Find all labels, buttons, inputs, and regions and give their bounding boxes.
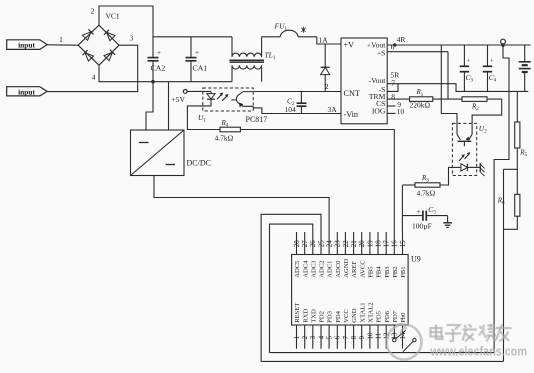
junction dot A	[151, 80, 155, 84]
svg-text:XTAL2: XTAL2	[368, 302, 375, 322]
node 2 label	[91, 7, 95, 16]
svg-text:+: +	[195, 49, 199, 57]
U9 top pin 23 ADC0	[335, 232, 342, 278]
U1 LED	[207, 91, 215, 99]
wire fuse to CNT +V (1A)	[317, 37, 341, 44]
svg-text:26: 26	[310, 240, 317, 247]
IOG stub (10)	[387, 112, 395, 114]
U9 bottom pin 7 VCC	[343, 309, 350, 349]
svg-text:+: +	[157, 49, 161, 57]
U9 top pin 16 PB2	[392, 232, 399, 278]
R4 label	[221, 119, 229, 129]
U2 phototransistor	[457, 134, 472, 146]
svg-text:AGND: AGND	[343, 259, 350, 278]
capacitor C4	[483, 45, 494, 91]
svg-text:11: 11	[375, 332, 382, 339]
svg-text:PB1: PB1	[400, 266, 407, 277]
wire R1 to R2	[433, 98, 462, 100]
svg-text:CA2: CA2	[151, 64, 166, 73]
wire 6 to TRM node	[447, 52, 449, 99]
wire input2 to bridge node 3	[47, 45, 138, 91]
svg-text:7: 7	[343, 335, 350, 339]
DC-DC module CNT box	[341, 38, 387, 124]
wire CNT control (2)	[253, 91, 341, 93]
U9 box	[292, 255, 409, 326]
CNT TRM pin label	[369, 92, 386, 101]
C3 label	[466, 73, 474, 84]
svg-text:+: +	[467, 58, 471, 65]
U9 top pin 20 AVCC	[359, 232, 366, 278]
fuse FU1	[262, 30, 317, 37]
R1 label	[416, 88, 424, 98]
node 4 label	[92, 73, 96, 82]
U9 top pin 25 ADC2	[318, 232, 325, 278]
svg-text:28: 28	[294, 240, 301, 247]
wire R5 bottom jog	[504, 148, 518, 169]
resistor R6	[515, 194, 520, 216]
svg-text:22: 22	[343, 240, 350, 247]
wire R6 bottom jog	[504, 216, 518, 229]
CNT +V pin label	[344, 40, 355, 49]
10 label	[397, 107, 405, 116]
input terminal 1	[7, 40, 48, 50]
wire node2 to top rail	[99, 6, 153, 57]
svg-text:7: 7	[391, 79, 395, 88]
wire rail B to U9 pin25	[261, 214, 321, 361]
TL1 label	[265, 51, 276, 62]
wire 4R branch to U2 collector	[441, 45, 457, 134]
capacitor C2	[297, 92, 307, 114]
svg-text:27: 27	[302, 240, 309, 247]
CNT IOG pin label	[372, 107, 386, 116]
star marker	[301, 27, 305, 33]
battery BT1	[519, 45, 531, 91]
svg-text:ADC3: ADC3	[310, 260, 317, 278]
wire rail to R5	[516, 91, 518, 122]
resistor R1	[410, 97, 433, 102]
wire input1 to bridge node 1	[47, 44, 78, 46]
svg-text:25: 25	[318, 240, 325, 247]
wire U1 emitter	[252, 106, 254, 108]
svg-text:20: 20	[359, 240, 366, 247]
resistor R3	[415, 183, 440, 187]
optocoupler U1 dashed box	[203, 88, 253, 111]
svg-text:PB5: PB5	[368, 266, 375, 278]
optocoupler U2 dashed box	[452, 123, 476, 175]
U1 light arrows	[217, 93, 228, 101]
svg-text:+5V: +5V	[172, 95, 186, 104]
U9 top pin 19 PB5	[367, 232, 374, 278]
wire R2 to U2 emitter	[472, 99, 502, 134]
svg-text:100µF: 100µF	[412, 222, 432, 231]
wire R3 node down to U9 PB1	[401, 185, 403, 232]
svg-text:18: 18	[375, 240, 382, 247]
svg-text:21: 21	[351, 240, 358, 247]
svg-text:6: 6	[335, 335, 342, 339]
svg-text:+V: +V	[344, 40, 355, 49]
svg-text:PB4: PB4	[376, 266, 383, 278]
-S wire (7)	[387, 84, 398, 92]
U9 bottom pin 4 PD2	[318, 311, 325, 349]
svg-text:PC817: PC817	[246, 115, 268, 124]
9 label	[397, 100, 401, 109]
bottom rail A	[270, 352, 495, 354]
svg-text:U9: U9	[411, 255, 421, 264]
watermark	[387, 324, 528, 360]
svg-text:PD5: PD5	[376, 310, 383, 322]
7 label	[391, 79, 395, 88]
3A label	[328, 105, 338, 114]
wire rail to DC/DC right input	[168, 82, 170, 130]
U9 top pin 28 ADC5	[294, 232, 301, 278]
svg-text:DC/DC: DC/DC	[187, 159, 211, 168]
8 label	[391, 92, 395, 101]
U9 top pin 27 ADC4	[302, 232, 309, 278]
svg-text:PD3: PD3	[327, 310, 334, 322]
svg-text:PD7: PD7	[392, 310, 399, 322]
svg-text:1: 1	[59, 35, 63, 44]
svg-text:2: 2	[302, 335, 309, 339]
capacitor C5	[402, 208, 447, 221]
U9 bottom pin 3 TXD	[310, 309, 317, 349]
CNT -Vin pin label	[344, 110, 359, 119]
U9 top pin 24 ADC1	[327, 232, 334, 278]
capacitor C3	[460, 45, 471, 91]
U9 bottom pin 10 XTAL2	[367, 302, 374, 348]
svg-text:PD6: PD6	[384, 310, 391, 322]
R6 label	[497, 197, 505, 207]
C2 label	[287, 96, 295, 107]
U2 label	[479, 124, 487, 135]
U9 bottom pin 13 PD7	[392, 310, 399, 339]
node 1 label	[59, 35, 63, 44]
U9 bottom pin 11 PD5	[375, 310, 382, 348]
svg-text:1: 1	[294, 335, 301, 339]
R3 value	[417, 188, 436, 197]
wire 4R to rail A	[494, 45, 509, 352]
CNT CS pin label	[376, 99, 385, 108]
U9 top pin 15 PB1	[400, 232, 407, 278]
switch S1	[393, 330, 417, 351]
svg-text:ADC4: ADC4	[302, 260, 309, 278]
wire +5V to LED	[187, 90, 211, 92]
wire R3 to U2 LED	[440, 167, 452, 185]
svg-text:-Vin: -Vin	[344, 110, 359, 119]
svg-text:ADC5: ADC5	[294, 260, 301, 278]
2 label	[325, 82, 329, 91]
svg-text:3A: 3A	[328, 105, 338, 114]
svg-text:10: 10	[397, 107, 405, 116]
svg-text:5: 5	[327, 335, 334, 339]
U9 bottom pin 8 GND	[351, 308, 358, 348]
U9 top pin 18 PB4	[375, 232, 382, 278]
5R label	[391, 70, 400, 79]
svg-text:AVCC: AVCC	[359, 260, 366, 278]
svg-text:+: +	[417, 208, 421, 216]
FU1 label	[274, 21, 288, 32]
svg-text:4: 4	[92, 73, 96, 82]
svg-text:RXD: RXD	[302, 309, 309, 323]
U9 label	[411, 255, 421, 264]
U9 top pin 21 AREF	[351, 232, 358, 278]
U9 top pin 26 ADC3	[310, 232, 317, 278]
U9 top pin 17 PB3	[384, 232, 391, 278]
R1 value 220k	[410, 101, 431, 110]
svg-text:17: 17	[384, 240, 391, 247]
U9 bottom pin 1 RESET	[294, 303, 301, 349]
svg-text:CNT: CNT	[344, 89, 360, 98]
wire LED cathode to R4	[187, 99, 220, 129]
svg-text:3: 3	[130, 33, 134, 42]
R4 value	[215, 134, 234, 143]
bridge rectifier VC1	[78, 25, 119, 65]
svg-text:TXD: TXD	[310, 309, 317, 323]
svg-text:VCC: VCC	[343, 309, 350, 323]
C2 value 104	[285, 105, 297, 114]
wire V2 down to bottom rail B	[503, 169, 505, 361]
svg-text:4: 4	[318, 335, 325, 339]
junction dot 4R	[393, 43, 396, 46]
svg-text:6: 6	[391, 42, 395, 51]
svg-text:9: 9	[359, 335, 366, 339]
6 label	[391, 42, 395, 51]
svg-text:4.7kΩ: 4.7kΩ	[417, 188, 436, 197]
top rail (positive)	[153, 36, 232, 38]
resistor R4	[220, 127, 240, 132]
svg-text:2: 2	[325, 82, 329, 91]
chassis ground G1	[477, 163, 485, 176]
C4 label	[489, 73, 497, 84]
DC/DC label	[187, 159, 211, 168]
U1 label	[198, 113, 206, 124]
svg-text:4.7kΩ: 4.7kΩ	[215, 134, 234, 143]
1A label	[319, 36, 329, 45]
CNT +S pin label	[377, 49, 386, 58]
svg-text:input: input	[18, 87, 35, 96]
C5 value	[412, 222, 432, 231]
svg-text:XTAL1: XTAL1	[359, 302, 366, 322]
svg-text:PD2: PD2	[319, 311, 326, 323]
U2 LED	[452, 164, 476, 171]
svg-text:220kΩ: 220kΩ	[410, 101, 431, 110]
U9 bottom pin 12 PD6	[384, 310, 391, 348]
diode D1	[321, 44, 330, 92]
CNT pin label	[344, 89, 360, 98]
svg-text:RESET: RESET	[294, 303, 301, 323]
svg-text:+: +	[490, 58, 494, 65]
svg-text:3: 3	[310, 335, 317, 339]
node 3 label	[130, 33, 134, 42]
U9 bottom pin 14 Pb0	[400, 312, 407, 349]
svg-text:23: 23	[335, 240, 342, 247]
input terminal 2	[7, 87, 48, 97]
+Vout rail (4R)	[387, 44, 531, 46]
4R label	[397, 35, 406, 44]
-Vout wire (5R)	[387, 84, 528, 92]
svg-text:4R: 4R	[397, 35, 406, 44]
wire U9 pin15 to R3	[402, 184, 415, 186]
svg-text:CA1: CA1	[193, 64, 208, 73]
svg-text:8: 8	[351, 335, 358, 339]
svg-text:IOG: IOG	[372, 107, 386, 116]
resistor R5	[515, 122, 520, 148]
svg-text:PD4: PD4	[335, 310, 342, 322]
svg-text:-Vout: -Vout	[369, 76, 387, 85]
svg-text:19: 19	[367, 240, 374, 247]
R3 label	[421, 174, 429, 184]
PC817 label	[246, 115, 268, 124]
CNT -Vout pin label	[369, 76, 387, 85]
wire R4 to U9 PB2	[240, 130, 394, 233]
common-mode choke TL1	[230, 37, 265, 82]
wire dot to DC/DC left input	[146, 82, 153, 130]
svg-text:24: 24	[327, 240, 334, 247]
svg-text:input: input	[18, 40, 35, 49]
svg-text:15: 15	[400, 240, 407, 247]
bottom rail B	[261, 360, 503, 362]
svg-text:www.elecfans.com: www.elecfans.com	[430, 345, 527, 359]
svg-text:PB3: PB3	[384, 266, 391, 278]
U1 phototransistor	[231, 92, 253, 107]
VC1 label	[106, 12, 120, 21]
svg-text:16: 16	[392, 240, 399, 247]
svg-text:VC1: VC1	[106, 12, 120, 21]
TRM wire	[387, 98, 409, 100]
svg-text:ADC2: ADC2	[319, 261, 326, 278]
signal ground G2	[443, 216, 452, 228]
CS stub (9)	[387, 105, 395, 107]
svg-text:10: 10	[367, 332, 374, 339]
wire -Vin (3A)	[253, 108, 341, 114]
output terminal	[501, 39, 506, 47]
R5 label	[519, 149, 527, 159]
DC/DC converter	[131, 130, 185, 176]
svg-text:104: 104	[285, 105, 297, 114]
wire node4 down	[98, 65, 100, 82]
resistor R2	[462, 97, 487, 102]
wire rail A to U9 pin26	[270, 224, 313, 353]
R2 label	[471, 102, 479, 112]
capacitor CA1	[186, 37, 208, 82]
svg-text:+S: +S	[377, 49, 386, 58]
svg-text:2: 2	[91, 7, 95, 16]
U2 light arrows	[459, 153, 470, 161]
svg-text:Pb0: Pb0	[400, 312, 407, 323]
U9 bottom pin 6 PD4	[335, 310, 342, 348]
svg-text:ADC0: ADC0	[335, 260, 342, 278]
wire DC/DC output to U9 pin24	[154, 176, 329, 233]
U9 top pin 22 AGND	[343, 232, 350, 278]
CNT +Vout pin label	[367, 40, 386, 49]
+S wire (6)	[387, 51, 448, 53]
+5V terminal	[183, 90, 187, 94]
svg-text:1A: 1A	[319, 36, 329, 45]
bottom rail (negative)	[99, 81, 232, 83]
U9 bottom pin 9 XTAL1	[359, 302, 366, 348]
U9 bottom pin 2 RXD	[302, 309, 309, 349]
svg-text:AREF: AREF	[351, 261, 358, 278]
CNT -S pin label	[379, 85, 386, 94]
U9 bottom pin 5 PD3	[327, 310, 334, 348]
wire to R6 top	[516, 169, 518, 194]
capacitor CA2	[148, 49, 166, 81]
svg-text:8: 8	[391, 92, 395, 101]
+5V label	[172, 95, 186, 104]
svg-text:ADC1: ADC1	[327, 261, 334, 278]
svg-text:PB2: PB2	[392, 266, 399, 277]
svg-text:GND: GND	[351, 308, 358, 323]
C5 label	[428, 205, 436, 216]
